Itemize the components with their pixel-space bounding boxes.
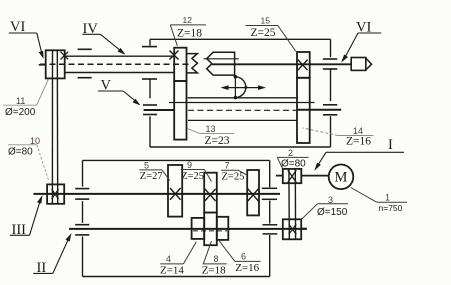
svg-text:2: 2 [288,148,293,158]
wire shift link vertical [234,75,236,98]
wire belt right line [56,50,58,204]
wire shift rod A [188,97,297,99]
svg-text:11: 11 [16,96,25,106]
pulley 11 [46,50,65,78]
bearing shaft IV wall bottom [142,78,157,80]
bearing shaft II right wall top [263,224,278,226]
wire belt right drive left line [288,169,290,239]
clutch left half teeth [187,54,198,73]
bearing shaft II left wall top [75,224,89,226]
svg-text:Z=27: Z=27 [140,171,163,182]
pulley 3 [283,219,301,239]
node X fixing gear 15 [298,60,308,71]
shaft II right stub [301,228,307,230]
clutch inner line [204,58,239,60]
svg-text:Z=16: Z=16 [346,136,371,148]
wire shift double arrow [223,87,264,89]
bearing shaft VI wall bottom [323,68,337,70]
bearing shaft IV left bottom [78,77,92,79]
svg-text:Ø=150: Ø=150 [317,207,348,218]
svg-text:Z=25: Z=25 [181,171,204,182]
svg-text:7: 7 [225,161,230,171]
node fork pivot dot [244,86,247,89]
bearing shaft V left bottom [143,114,157,116]
svg-text:6: 6 [241,252,246,262]
housing gearbox top edge [150,38,331,40]
output end square [351,58,366,71]
bearing shaft III right wall bottom [262,198,277,200]
bearing shaft II right wall bottom [263,233,278,235]
node X fixing pulley 3 [289,224,296,234]
wire shaft VI left stub [39,64,46,66]
housing left wall [149,39,151,147]
gear Z25 n7 [247,170,259,215]
svg-text:Z=18: Z=18 [202,265,226,277]
svg-text:n=750: n=750 [379,203,403,213]
shaft III line [33,193,280,195]
svg-text:4: 4 [166,254,171,264]
svg-text:1: 1 [385,192,390,202]
bearing shaft II left wall bottom [75,234,89,236]
housing bottom box right wall [269,160,271,276]
svg-text:9: 9 [187,160,192,170]
svg-text:12: 12 [183,15,193,25]
svg-text:Z=25: Z=25 [251,27,276,39]
shaft I motor link [301,175,328,177]
bearing shaft III left wall top [75,188,89,190]
shaft I left stub [276,175,283,177]
shaft IV dashed axis [40,63,191,65]
bearing shaft VI wall top [323,58,337,60]
clutch sliding half [207,52,235,75]
svg-text:Z=16: Z=16 [235,262,259,274]
node joint upper [234,75,238,79]
housing right wall [330,39,332,147]
housing bottom box bottom edge [83,276,270,278]
pulley 2 [283,169,302,183]
wire shift arc [235,77,245,98]
bearing shaft IV left top [78,48,92,50]
output end arrow tip [366,58,372,70]
gear Z14 n4 [192,218,205,239]
node joint lower [234,96,238,100]
gear Z13 [174,81,186,140]
svg-text:13: 13 [206,124,216,134]
svg-text:Ø=80: Ø=80 [8,146,33,157]
svg-text:M: M [335,170,348,186]
gear Z15 [297,52,310,78]
shaft IV sleeve top line [65,55,175,57]
shaft V dashed axis [188,109,296,111]
svg-text:Z=14: Z=14 [160,265,184,277]
gear Z14 [297,78,310,143]
shaft IV sleeve bottom line [65,72,175,74]
svg-text:5: 5 [144,160,149,170]
wire belt left line [51,50,53,204]
gear Z18 n8 [204,213,217,246]
motor M circle [329,165,354,190]
gear Z12 [174,48,186,81]
gear Z25 n9 [204,173,217,213]
svg-text:14: 14 [353,126,363,136]
bearing shaft III left wall bottom [75,198,89,200]
bearing shaft III right wall top [262,187,277,189]
bearing shaft IV wall top [142,46,157,48]
node X fixing gear 9 [205,189,216,201]
svg-text:Z=23: Z=23 [205,135,230,147]
wire line D sleeve bottom [188,119,297,121]
housing bottom box top edge [83,159,270,161]
wire belt right drive right line [294,169,296,239]
shaft V right segment [297,109,341,111]
bearing shaft V right bottom [323,114,337,116]
bearing shaft V left top [143,104,157,106]
svg-text:15: 15 [261,15,271,25]
node X fixing pulley 10 [52,189,59,199]
shaft V left segment [144,109,175,111]
node X fixing pulley 11 [61,52,69,60]
svg-text:Ø=200: Ø=200 [5,107,36,118]
node X fixing gear 12 [170,51,179,60]
housing bottom box left wall [82,160,84,276]
node X fixing pulley 2 [288,170,297,182]
svg-text:Ø=80: Ø=80 [281,159,306,170]
node X fixing gear 7 [248,189,259,201]
node X fixing gear 5 [170,188,181,200]
svg-text:Z=25: Z=25 [222,171,245,182]
gear Z16 n6 [217,217,229,240]
bearing shaft V right top [323,104,337,106]
wire spline dashes shaft II [193,230,227,232]
pulley 10 [47,184,64,203]
wire line B sleeve top [169,102,315,104]
svg-text:8: 8 [214,254,219,264]
svg-text:Z=18: Z=18 [177,28,202,40]
shaft II line [69,228,307,230]
svg-text:I: I [388,137,393,153]
housing gearbox bottom edge [150,146,331,148]
shaft VI line [212,63,351,65]
gear Z27 n5 [168,165,182,217]
